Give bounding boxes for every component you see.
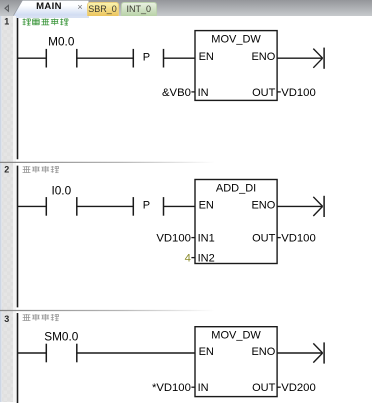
svg-text:4: 4	[185, 253, 191, 265]
svg-text:P: P	[143, 51, 150, 63]
svg-text:ENO: ENO	[251, 199, 275, 211]
svg-text:MOV_DW: MOV_DW	[211, 33, 261, 45]
svg-text:VD100: VD100	[281, 87, 316, 99]
svg-text:MOV_DW: MOV_DW	[211, 330, 261, 342]
svg-text:IN1: IN1	[198, 233, 215, 245]
svg-text:*VD100: *VD100	[152, 382, 191, 394]
svg-text:EN: EN	[199, 199, 214, 211]
svg-text:M0.0: M0.0	[48, 35, 75, 49]
svg-text:&VB0: &VB0	[162, 87, 191, 99]
svg-text:OUT: OUT	[252, 87, 276, 99]
svg-text:VD100: VD100	[281, 233, 316, 245]
svg-text:3: 3	[4, 314, 9, 324]
svg-text:2: 2	[4, 165, 9, 175]
svg-text:I0.0: I0.0	[51, 184, 71, 198]
svg-text:OUT: OUT	[252, 382, 276, 394]
svg-text:VD200: VD200	[281, 382, 316, 394]
svg-text:P: P	[143, 200, 150, 212]
svg-text:IN: IN	[198, 382, 209, 394]
svg-text:EN: EN	[199, 51, 214, 63]
svg-text:OUT: OUT	[252, 233, 276, 245]
svg-text:ENO: ENO	[251, 346, 275, 358]
svg-text:ENO: ENO	[251, 51, 275, 63]
svg-text:IN: IN	[198, 87, 209, 99]
svg-text:EN: EN	[199, 346, 214, 358]
svg-text:IN2: IN2	[198, 253, 215, 265]
svg-text:VD100: VD100	[156, 233, 191, 245]
svg-text:1: 1	[4, 17, 9, 27]
svg-text:ADD_DI: ADD_DI	[216, 182, 256, 194]
svg-text:SM0.0: SM0.0	[44, 329, 79, 343]
